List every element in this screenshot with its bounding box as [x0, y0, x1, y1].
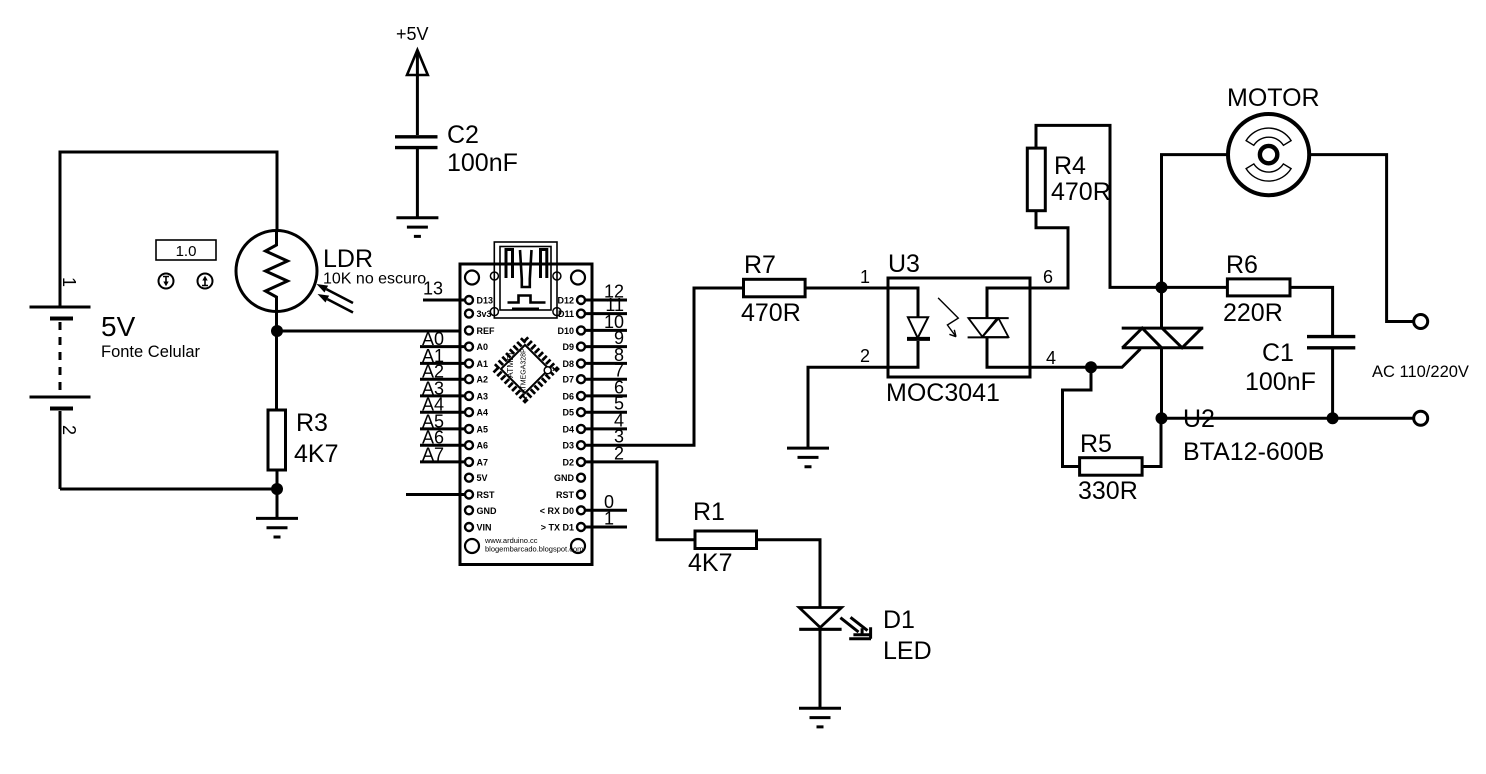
svg-text:1.0: 1.0 [176, 243, 197, 260]
svg-text:R1: R1 [693, 498, 725, 526]
svg-text:D5: D5 [562, 408, 574, 418]
svg-text:A7: A7 [422, 444, 444, 464]
svg-text:3v3: 3v3 [477, 309, 492, 319]
svg-text:R3: R3 [296, 409, 328, 437]
svg-text:2: 2 [59, 425, 79, 435]
svg-text:R7: R7 [744, 251, 776, 279]
svg-text:1: 1 [59, 277, 79, 287]
svg-text:10K no escuro: 10K no escuro [323, 271, 426, 288]
svg-text:ATMEGA328P: ATMEGA328P [521, 348, 528, 394]
svg-text:4K7: 4K7 [688, 549, 732, 577]
svg-text:blogembarcado.blogspot.com: blogembarcado.blogspot.com [485, 545, 583, 554]
svg-text:1: 1 [604, 509, 614, 529]
svg-text:Fonte Celular: Fonte Celular [101, 343, 201, 361]
svg-text:2: 2 [860, 346, 870, 366]
svg-text:100nF: 100nF [447, 149, 518, 177]
svg-text:220R: 220R [1223, 299, 1283, 327]
svg-text:U3: U3 [888, 250, 920, 278]
svg-text:D10: D10 [557, 326, 574, 336]
svg-text:A6: A6 [477, 441, 489, 451]
svg-text:D2: D2 [562, 457, 574, 467]
svg-text:BTA12-600B: BTA12-600B [1183, 438, 1324, 466]
svg-text:D4: D4 [562, 424, 574, 434]
svg-text:13: 13 [423, 279, 443, 299]
svg-text:5V: 5V [477, 473, 488, 483]
svg-text:A5: A5 [477, 424, 489, 434]
svg-text:GND: GND [554, 473, 575, 483]
svg-text:MOTOR: MOTOR [1227, 84, 1320, 112]
svg-text:R5: R5 [1080, 430, 1112, 458]
svg-text:5V: 5V [101, 311, 136, 342]
svg-text:A4: A4 [477, 408, 489, 418]
svg-text:D9: D9 [562, 342, 574, 352]
svg-text:+5V: +5V [396, 24, 429, 44]
svg-text:MOC3041: MOC3041 [886, 379, 1000, 407]
svg-text:AC 110/220V: AC 110/220V [1372, 363, 1469, 381]
svg-text:D3: D3 [562, 441, 574, 451]
svg-text:470R: 470R [741, 299, 801, 327]
svg-text:VIN: VIN [477, 523, 492, 533]
svg-text:D12: D12 [557, 296, 574, 306]
svg-text:D1: D1 [883, 606, 915, 634]
svg-text:A3: A3 [477, 391, 489, 401]
svg-text:A1: A1 [477, 359, 489, 369]
svg-text:C2: C2 [447, 121, 479, 149]
svg-text:4K7: 4K7 [294, 440, 338, 468]
svg-text:LDR: LDR [323, 245, 373, 273]
svg-text:A2: A2 [477, 375, 489, 385]
svg-text:LED: LED [883, 637, 932, 665]
svg-text:ATMEL: ATMEL [505, 350, 515, 378]
svg-text:470R: 470R [1051, 178, 1111, 206]
svg-text:RST: RST [556, 490, 575, 500]
svg-text:D11: D11 [558, 309, 574, 319]
svg-text:4: 4 [1046, 348, 1056, 368]
svg-text:6: 6 [1043, 267, 1053, 287]
svg-text:D8: D8 [562, 359, 574, 369]
svg-text:330R: 330R [1078, 477, 1138, 505]
svg-text:D6: D6 [562, 391, 574, 401]
svg-text:R6: R6 [1226, 251, 1258, 279]
svg-text:> TX D1: > TX D1 [541, 523, 574, 533]
svg-text:GND: GND [477, 506, 498, 516]
svg-text:D13: D13 [477, 296, 494, 306]
svg-text:REF: REF [477, 326, 496, 336]
svg-text:< RX D0: < RX D0 [540, 506, 574, 516]
svg-text:A7: A7 [477, 457, 489, 467]
svg-text:D7: D7 [562, 375, 574, 385]
svg-text:1: 1 [860, 267, 870, 287]
svg-text:R4: R4 [1054, 152, 1086, 180]
svg-text:100nF: 100nF [1245, 368, 1316, 396]
svg-text:C1: C1 [1262, 339, 1294, 367]
svg-text:A0: A0 [477, 342, 489, 352]
svg-text:RST: RST [477, 490, 496, 500]
